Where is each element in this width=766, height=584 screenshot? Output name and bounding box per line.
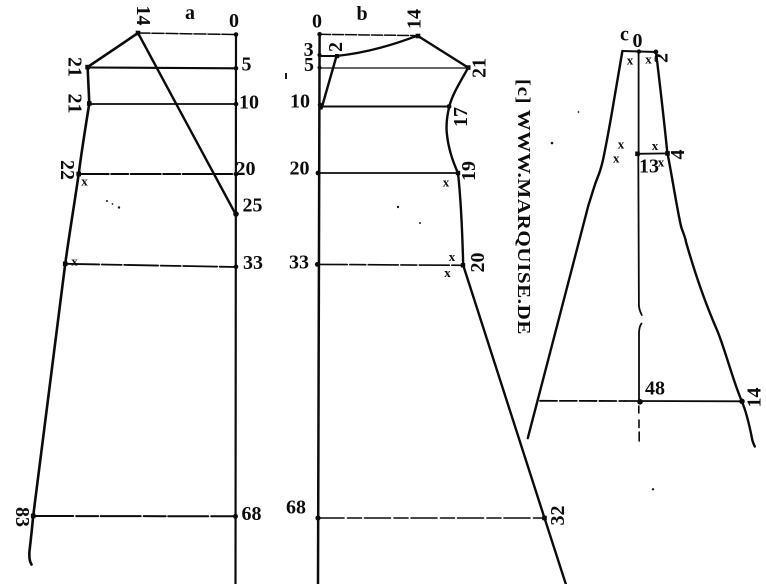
svg-text:4: 4 xyxy=(667,150,689,160)
svg-text:68: 68 xyxy=(286,497,306,519)
svg-text:x: x xyxy=(443,175,450,190)
svg-text:b: b xyxy=(356,3,367,25)
svg-text:14: 14 xyxy=(404,9,426,29)
svg-text:20: 20 xyxy=(236,158,256,180)
svg-text:2: 2 xyxy=(651,53,673,63)
svg-text:21: 21 xyxy=(469,58,491,78)
svg-text:10: 10 xyxy=(290,91,310,113)
svg-text:0: 0 xyxy=(229,10,239,32)
svg-text:c: c xyxy=(620,24,629,46)
svg-text:0: 0 xyxy=(312,11,322,33)
svg-text:2: 2 xyxy=(325,42,347,52)
svg-text:32: 32 xyxy=(547,506,569,526)
svg-text:83: 83 xyxy=(11,507,33,527)
svg-text:x: x xyxy=(449,249,456,264)
svg-text:20: 20 xyxy=(467,253,489,273)
svg-text:x: x xyxy=(658,155,665,170)
svg-text:x: x xyxy=(618,137,625,152)
svg-text:33: 33 xyxy=(243,252,263,274)
svg-text:x: x xyxy=(444,265,451,280)
svg-text:x: x xyxy=(81,174,88,189)
svg-text:14: 14 xyxy=(132,6,154,26)
svg-text:21: 21 xyxy=(64,57,86,77)
svg-text:25: 25 xyxy=(243,195,263,217)
svg-text:x: x xyxy=(613,151,620,166)
svg-text:[c] WWW.MARQUISE.DE: [c] WWW.MARQUISE.DE xyxy=(514,79,534,335)
svg-text:x: x xyxy=(645,52,652,67)
svg-text:5: 5 xyxy=(242,54,252,76)
svg-text:33: 33 xyxy=(289,252,309,274)
svg-text:0: 0 xyxy=(633,30,643,52)
svg-text:13: 13 xyxy=(639,156,659,178)
svg-text:a: a xyxy=(185,2,195,24)
svg-text:22: 22 xyxy=(56,160,78,180)
svg-text:17: 17 xyxy=(450,107,472,127)
svg-text:x: x xyxy=(627,53,634,68)
svg-text:x: x xyxy=(652,138,659,153)
svg-text:20: 20 xyxy=(290,158,310,180)
svg-text:14: 14 xyxy=(744,388,766,408)
svg-text:10: 10 xyxy=(239,92,259,114)
svg-text:x: x xyxy=(71,254,78,269)
svg-text:21: 21 xyxy=(64,94,86,114)
svg-text:48: 48 xyxy=(645,378,665,400)
svg-text:5: 5 xyxy=(304,54,314,76)
svg-text:68: 68 xyxy=(242,503,262,525)
svg-text:19: 19 xyxy=(458,161,480,181)
